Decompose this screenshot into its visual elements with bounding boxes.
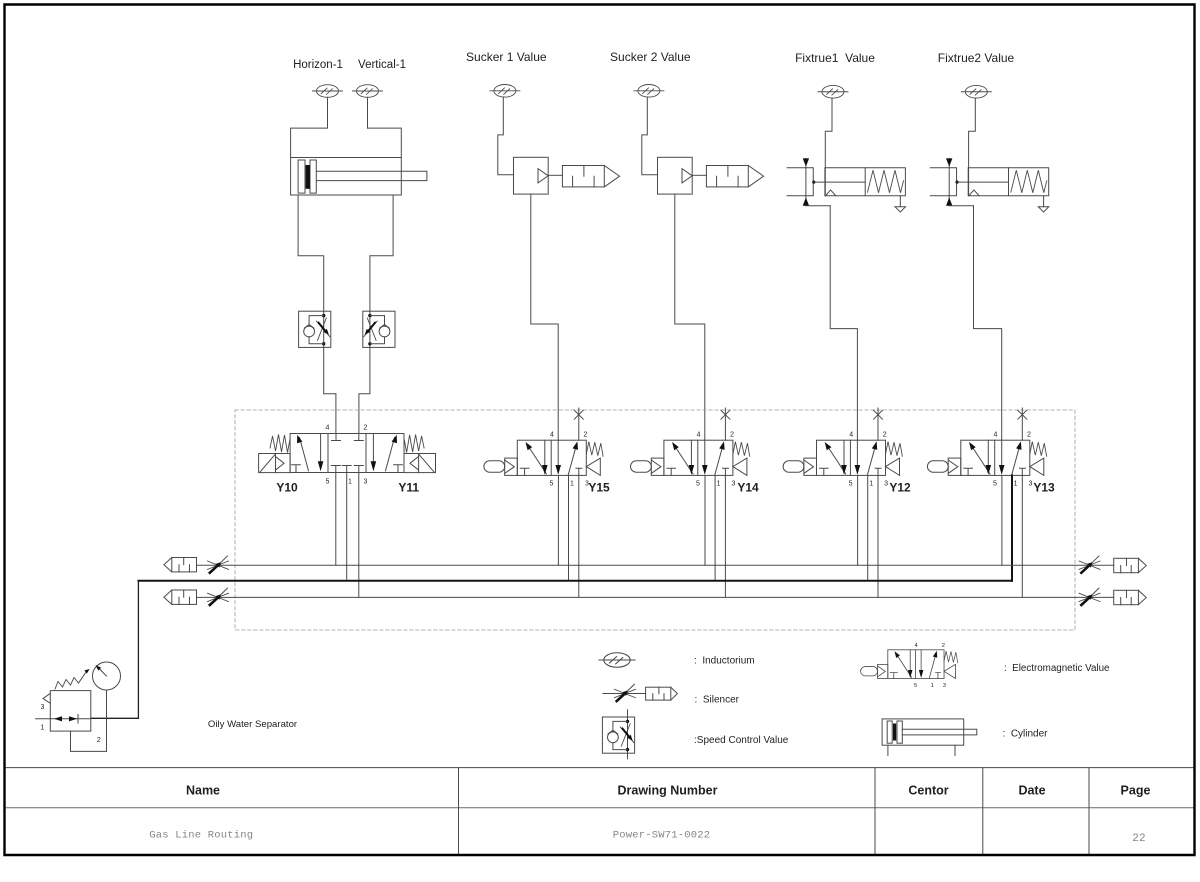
svg-text:Sucker 2 Value: Sucker 2 Value — [610, 50, 691, 64]
cylinder piston — [298, 160, 316, 193]
svg-text:Horizon-1: Horizon-1 — [293, 59, 343, 71]
wire Y14 port 3 to exhaust bus — [724, 475, 726, 597]
svg-text:Y15: Y15 — [588, 481, 610, 495]
silencer top-right — [1114, 558, 1147, 572]
svg-text:Fixtrue1 Value: Fixtrue1 Value — [795, 51, 875, 65]
svg-text:Y10: Y10 — [276, 481, 298, 495]
wire Y10/Y11 port 3 to exhaust bus — [358, 473, 360, 598]
wire Y12 port 5 to exhaust bus — [857, 475, 859, 565]
svg-text:Y13: Y13 — [1033, 481, 1055, 495]
svg-text::Speed Control Value: :Speed Control Value — [694, 735, 789, 746]
wire Y13 port 3 to exhaust bus — [1021, 475, 1023, 597]
plugged port X above Y13 port 2 — [1018, 408, 1027, 440]
wire speed control 1 to valve Y10 port 4 — [324, 347, 336, 433]
svg-text:3: 3 — [364, 479, 368, 486]
wire Y12 port 3 to exhaust bus — [877, 475, 879, 597]
throttle top-left — [208, 556, 229, 573]
svg-text:Page: Page — [1121, 784, 1151, 798]
inductorium Horizon-1 — [313, 85, 343, 98]
wire Y14 port 5 to exhaust bus — [704, 475, 706, 565]
wire Y15 port 5 to exhaust bus — [557, 475, 559, 565]
separator port 2 loop — [71, 731, 107, 751]
clamp valve Fixtrue2 — [930, 85, 1049, 212]
supply feed riser from separator — [137, 581, 139, 719]
wire cylinder right port to speed control 2 — [370, 195, 393, 311]
valve Y13 — [927, 432, 1046, 488]
speed control valve 1 — [299, 311, 331, 347]
throttle bottom-left — [208, 588, 229, 605]
legend throttle — [614, 684, 635, 701]
svg-text:4: 4 — [325, 425, 329, 432]
valve Y12 — [783, 432, 902, 488]
svg-text:Y14: Y14 — [737, 481, 759, 495]
svg-text:5: 5 — [325, 479, 329, 486]
solenoid Y10 (left, with spring) — [259, 435, 291, 473]
port labels valve Y10/Y11 — [325, 425, 367, 486]
wire Horizon-1 inductorium to cylinder — [327, 97, 329, 128]
svg-text:Centor: Centor — [908, 784, 948, 798]
svg-text:Y12: Y12 — [889, 481, 911, 495]
svg-text:Gas Line Routing: Gas Line Routing — [149, 830, 253, 842]
plugged port X above Y12 port 2 — [874, 408, 883, 440]
legend speed control valve — [602, 710, 634, 759]
silencer bottom-left — [164, 590, 197, 604]
inductorium Vertical-1 — [353, 85, 383, 98]
title block — [5, 768, 1194, 855]
oily water separator (filter regulator) — [36, 691, 91, 732]
svg-text:: Inductorium: : Inductorium — [694, 656, 755, 667]
legend silencer line — [603, 693, 646, 695]
plugged port X above Y15 port 2 — [574, 408, 583, 440]
svg-text:1: 1 — [348, 479, 352, 486]
svg-text:22: 22 — [1132, 833, 1146, 845]
wire Y15 port 3 to exhaust bus — [578, 475, 580, 597]
wire Y13 port 5 to exhaust bus — [1001, 475, 1003, 565]
svg-text:Fixtrue2 Value: Fixtrue2 Value — [938, 51, 1015, 65]
svg-text:2: 2 — [97, 737, 101, 744]
legend inductorium — [599, 653, 635, 667]
valve Y15 — [484, 432, 603, 488]
supply line (thick) — [138, 580, 1011, 582]
wire Y13 port 1 to supply line (thick) — [1011, 475, 1013, 580]
cylinder rod — [316, 171, 427, 180]
exhaust bus top — [197, 564, 1114, 566]
legend electromagnetic valve — [861, 643, 958, 689]
svg-text:Date: Date — [1018, 784, 1045, 798]
supply feed from separator outlet — [91, 717, 139, 719]
plugged port X above Y14 port 2 — [721, 408, 730, 440]
wire Y14 port 1 to supply line — [714, 475, 716, 580]
speed control valve 2 (mirrored) — [363, 311, 395, 347]
separator port labels — [41, 704, 101, 744]
pressure gauge — [93, 662, 121, 751]
wire Fixtrue1 to valve Y12 port 4 — [830, 206, 857, 441]
svg-text:Sucker 1 Value: Sucker 1 Value — [466, 50, 547, 64]
svg-text:1: 1 — [41, 725, 45, 732]
wire Sucker 2 to valve Y14 port 4 — [675, 194, 705, 440]
legend silencer — [646, 687, 678, 700]
valve Y10/Y11 (5/3 double solenoid) body — [290, 434, 404, 473]
wire Y12 port 1 to supply line — [867, 475, 869, 580]
wire cylinder left port to speed control 1 — [298, 195, 324, 311]
svg-text:Power-SW71-0022: Power-SW71-0022 — [613, 830, 711, 842]
valve Y14 — [631, 432, 750, 488]
wire Y10/Y11 port 5 to exhaust bus — [335, 473, 337, 566]
separator adjustment spring arrow — [55, 669, 90, 689]
wire Sucker 1 to valve Y15 port 4 — [531, 194, 558, 440]
clamp valve Fixtrue1 — [787, 85, 906, 212]
svg-text:3: 3 — [41, 704, 45, 711]
wire Vertical-1 inductorium to cylinder — [367, 97, 369, 128]
legend cylinder — [882, 719, 977, 756]
manifold dashed enclosure — [235, 410, 1075, 630]
wire Y15 port 1 to supply line — [568, 475, 570, 580]
wire Fixtrue2 to valve Y13 port 4 — [974, 206, 1002, 441]
wire speed control 2 to valve Y11 port 2 — [359, 347, 370, 433]
svg-text:: Cylinder: : Cylinder — [1003, 729, 1049, 740]
svg-text:Y11: Y11 — [398, 481, 419, 495]
throttle top-right — [1079, 556, 1100, 573]
svg-text:Vertical-1: Vertical-1 — [358, 59, 406, 71]
svg-text:: Silencer: : Silencer — [695, 695, 740, 706]
svg-text:2: 2 — [364, 425, 368, 432]
vacuum generator Sucker 2 — [634, 85, 764, 195]
cylinder body (Horizon/Vertical) — [291, 128, 402, 195]
svg-text:Name: Name — [186, 784, 220, 798]
svg-text:Drawing Number: Drawing Number — [617, 784, 717, 798]
silencer top-left — [164, 558, 197, 572]
throttle bottom-right — [1079, 588, 1100, 605]
svg-text:: Electromagnetic Value: : Electromagnetic Value — [1004, 663, 1110, 674]
silencer bottom-right — [1114, 590, 1147, 604]
svg-text:Oily Water Separator: Oily Water Separator — [208, 719, 298, 730]
wire Y10/Y11 port 1 to supply line — [346, 473, 348, 581]
vacuum generator Sucker 1 — [490, 85, 620, 195]
exhaust bus bottom — [197, 596, 1114, 598]
solenoid Y11 (right, with spring) — [404, 435, 436, 473]
